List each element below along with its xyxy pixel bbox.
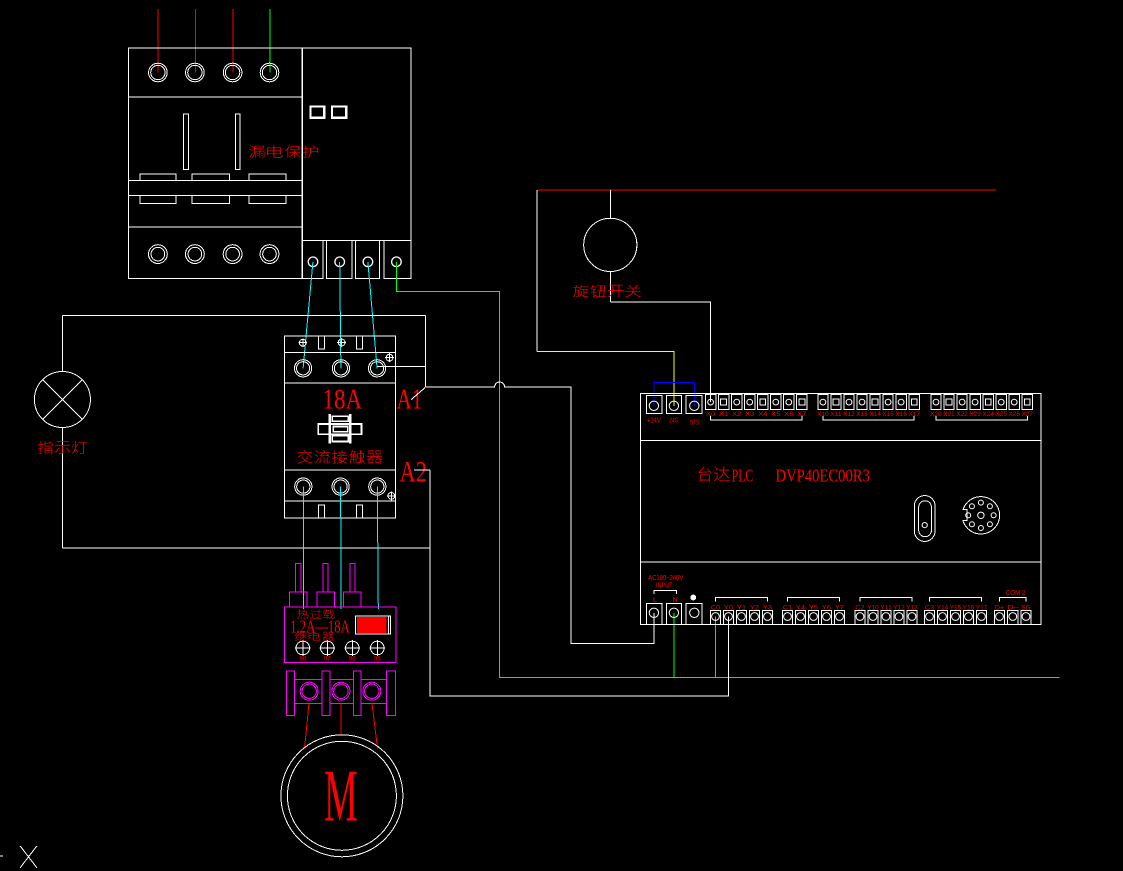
svg-text:C3: C3: [925, 605, 935, 612]
breaker bottom terminals 2 4 6 N: [149, 245, 168, 264]
svg-text:Y17: Y17: [976, 605, 988, 612]
contactor KM1 交流接触器 body: [284, 336, 395, 518]
svg-text:C1: C1: [783, 605, 793, 612]
svg-text:C0: C0: [711, 605, 721, 612]
label 继电器: [295, 632, 306, 641]
PLC input terminals X0-X27: [706, 394, 1033, 420]
svg-text:X6: X6: [784, 411, 794, 418]
svg-text:C2: C2: [855, 605, 865, 612]
svg-text:97: 97: [324, 657, 331, 663]
wire L2 supply (red): [195, 9, 197, 73]
svg-text:D+: D+: [995, 605, 1004, 612]
svg-text:Y0: Y0: [724, 605, 734, 612]
PLC round DIN connector: [962, 497, 999, 534]
label 指示灯: [38, 441, 53, 454]
svg-text:X27: X27: [1022, 411, 1034, 418]
PLC COM port capsule: [914, 496, 935, 542]
svg-text:X16: X16: [895, 411, 907, 418]
wire relay to motor V (red): [340, 703, 342, 735]
wire indicator-lamp loop top: [62, 315, 425, 317]
wire junction vertical at x=425: [424, 316, 426, 388]
svg-text:Y16: Y16: [963, 605, 975, 612]
svg-text:SG: SG: [1021, 605, 1030, 612]
svg-text:X24: X24: [983, 411, 995, 418]
svg-text:X1: X1: [719, 411, 729, 418]
wire A1 to PLC L (with hop over green): [425, 382, 654, 644]
PLC middle label 台达PLC DVP40EC00R3: [699, 466, 712, 481]
svg-text:X15: X15: [882, 411, 894, 418]
breaker test buttons: [311, 107, 325, 118]
label 漏电保护: [249, 145, 265, 157]
svg-text:1.2A—18A: 1.2A—18A: [290, 617, 349, 637]
contactor coil symbol: [318, 414, 361, 443]
wire V2 (cyan) contactor to relay: [340, 487, 343, 609]
svg-text:18A: 18A: [323, 384, 363, 416]
wire W2 (cyan) contactor to relay: [377, 487, 378, 609]
wire yellow to PLC 24G: [537, 352, 674, 406]
svg-text:PLC: PLC: [732, 465, 753, 485]
wire N (green) breaker to PLC C0 and beyond: [396, 262, 1059, 678]
svg-text:X11: X11: [830, 411, 842, 418]
svg-text:98: 98: [299, 657, 306, 663]
svg-text:Y11: Y11: [880, 605, 892, 612]
svg-text:X7: X7: [797, 411, 807, 418]
wire V (cyan) breaker to contactor: [340, 262, 341, 368]
svg-text:Y12: Y12: [893, 605, 905, 612]
wire L3 supply (red): [232, 9, 234, 73]
svg-text:Y6: Y6: [822, 605, 832, 612]
svg-text:X20: X20: [930, 411, 942, 418]
thermal relay FR1 热过载继电器 body (magenta): [285, 563, 397, 715]
svg-text:DVP40EC00R3: DVP40EC00R3: [776, 465, 871, 485]
svg-text:A2: A2: [399, 456, 427, 489]
relay terminals 2T1 4T2 6T3 (magenta): [300, 682, 318, 700]
wire relay to motor W (red): [372, 703, 378, 748]
contactor bottom terminals T1 T2 T3: [295, 478, 312, 495]
wire indicator-lamp loop left/bottom: [61, 316, 63, 372]
svg-text:Y10: Y10: [867, 605, 879, 612]
PLC 台达 DVP40EC00R3 body: [640, 394, 1041, 625]
svg-text:X12: X12: [843, 411, 855, 418]
relay reset button (red): [355, 616, 390, 634]
svg-text:X23: X23: [969, 411, 981, 418]
svg-text:X26: X26: [1009, 411, 1021, 418]
svg-text:Y2: Y2: [750, 605, 760, 612]
wire U2 (cyan) contactor to relay: [302, 487, 304, 609]
svg-text:D–: D–: [1007, 605, 1019, 612]
relay screw terminals 98 97 96 95: [295, 640, 311, 656]
svg-text:X17: X17: [909, 411, 921, 418]
svg-text:Y3: Y3: [763, 605, 773, 612]
svg-text:95: 95: [374, 657, 381, 663]
svg-text:Y7: Y7: [835, 605, 845, 612]
PLC top power terminals +24V 24G S/S: [647, 395, 703, 413]
wire U (cyan) breaker to contactor: [303, 262, 313, 368]
PLC output terminals C0-Y17 D+ D- SG: [710, 598, 1031, 625]
svg-text:96: 96: [349, 657, 356, 663]
svg-text:X2: X2: [732, 411, 742, 418]
svg-text:X10: X10: [817, 411, 829, 418]
svg-text:X4: X4: [758, 411, 768, 418]
wire A2 to PLC Y0: [430, 470, 729, 696]
PLC ground dot: [690, 595, 696, 601]
svg-text:X22: X22: [956, 411, 968, 418]
wire W (cyan) breaker to contactor: [368, 262, 377, 368]
svg-text:COM 2: COM 2: [1006, 588, 1025, 597]
wire N branch to PLC N terminal (green): [673, 613, 675, 678]
svg-text:Y4: Y4: [796, 605, 806, 612]
A1 leader line: [411, 388, 425, 400]
svg-text:INPUT: INPUT: [656, 581, 673, 590]
svg-text:A1: A1: [397, 383, 423, 415]
wire N supply (green): [269, 9, 271, 73]
svg-text:X25: X25: [996, 411, 1008, 418]
wire contactor A1 stub: [377, 366, 425, 368]
svg-text:X14: X14: [869, 411, 881, 418]
indicator lamp HL 指示灯: [34, 372, 90, 428]
wire L1 supply (red): [157, 9, 159, 73]
wire rotary switch to PLC X0: [610, 302, 710, 402]
svg-text:N: N: [673, 595, 678, 604]
wire +24V to S/S (blue): [654, 382, 695, 406]
contactor screws: [298, 338, 307, 347]
svg-text:+24V: +24V: [647, 415, 661, 424]
wire phase feed (red): [537, 189, 996, 191]
svg-text:X13: X13: [856, 411, 868, 418]
svg-text:Y15: Y15: [950, 605, 962, 612]
contactor top terminals L1 L2 L3: [295, 360, 312, 377]
wire red line to rotary switch drop: [536, 190, 538, 352]
svg-text:Y13: Y13: [906, 605, 918, 612]
svg-text:M: M: [324, 756, 358, 838]
motor M1 three-phase: [281, 735, 403, 857]
svg-text:X21: X21: [943, 411, 955, 418]
svg-text:X0: X0: [706, 411, 716, 418]
svg-text:Y1: Y1: [737, 605, 747, 612]
svg-text:X3: X3: [745, 411, 755, 418]
UCS X marker: [20, 846, 37, 868]
breaker top terminals 1 3 5 N: [149, 63, 168, 82]
svg-text:X5: X5: [771, 411, 781, 418]
wire N branch to PLC C0 terminal (green): [714, 617, 716, 678]
svg-text:24G: 24G: [669, 415, 678, 424]
svg-text:Y14: Y14: [937, 605, 949, 612]
label 交流接触器: [297, 450, 312, 463]
label 热过载: [297, 609, 308, 619]
circuit breaker QF1 漏电保护 body: [129, 48, 412, 278]
rotary switch SA 旋钮开关: [609, 190, 611, 218]
wire relay to motor U (red): [305, 703, 310, 748]
breaker output terminal block: [303, 241, 411, 279]
svg-text:L: L: [653, 595, 657, 604]
label 旋钮开关: [573, 285, 588, 297]
svg-text:Y5: Y5: [809, 605, 819, 612]
PLC bottom power terminals L N: [647, 604, 703, 625]
wire A2 stub: [414, 469, 430, 471]
svg-text:S/S: S/S: [690, 418, 699, 427]
